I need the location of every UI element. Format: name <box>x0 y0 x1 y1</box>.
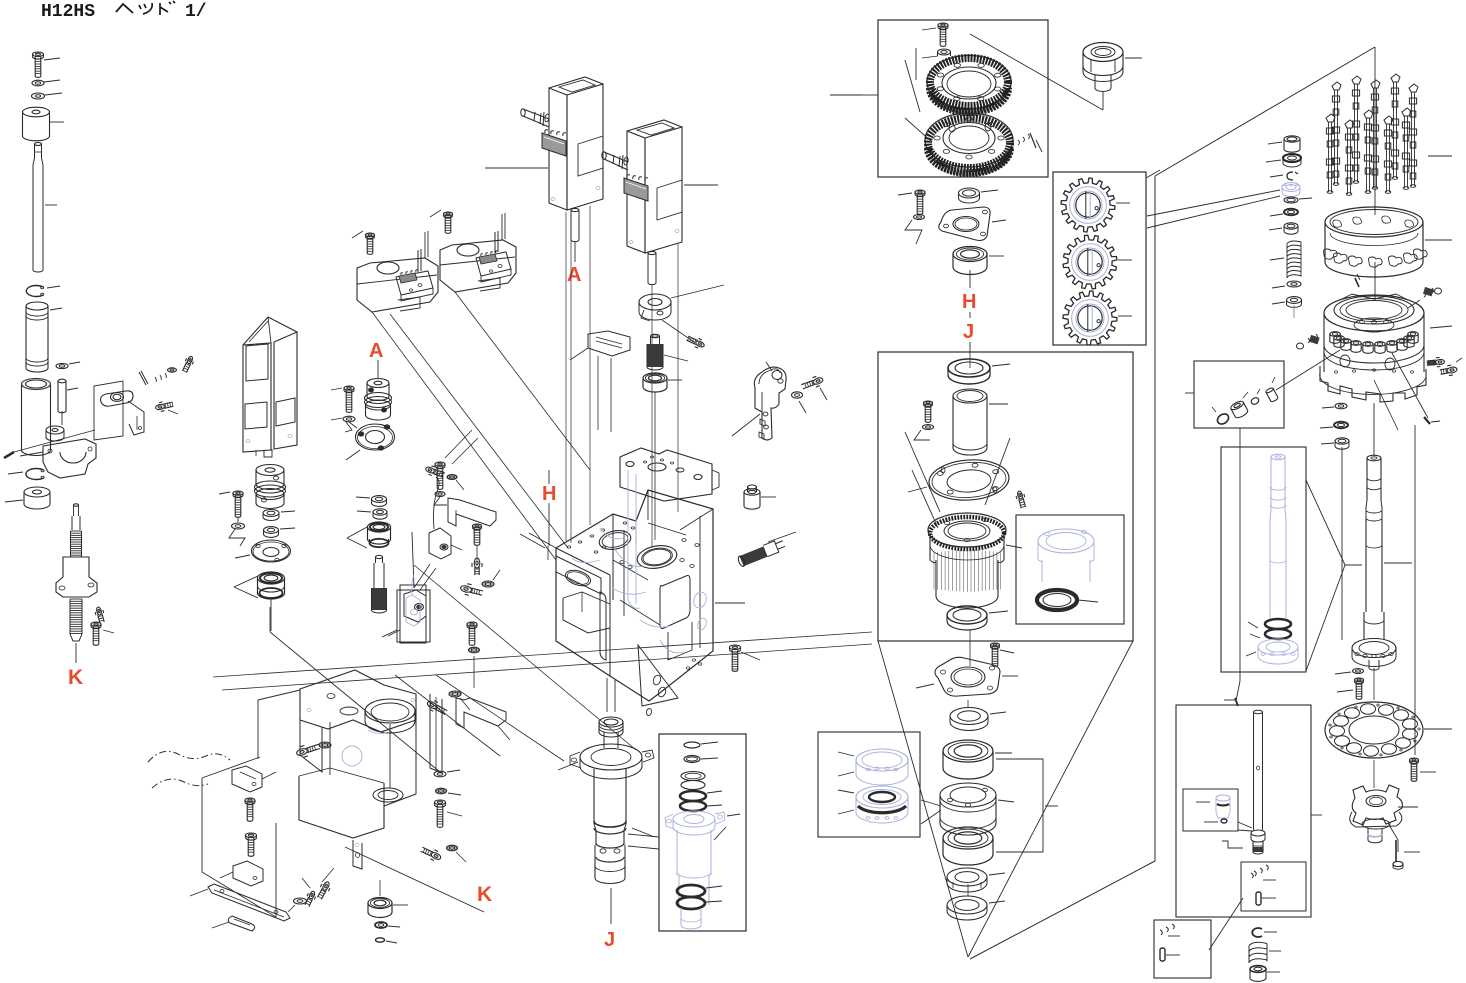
lever holes and pins <box>763 412 768 416</box>
spacer donut <box>24 487 50 497</box>
svg-text:A: A <box>567 264 581 286</box>
band cutout top 1 <box>1333 220 1342 227</box>
nozzle spindle 5 <box>1409 84 1418 92</box>
long leads down <box>372 312 556 560</box>
nozzle spindle 8 <box>1364 110 1373 118</box>
screw top <box>938 23 948 27</box>
c-clip bottom <box>1252 928 1262 937</box>
screw right side <box>1435 359 1444 365</box>
lever washer <box>792 392 803 398</box>
mini spring 3 <box>1160 924 1174 935</box>
bearing 1 <box>943 740 993 762</box>
nozzle holder 4 <box>1351 341 1361 346</box>
screw <box>366 233 375 237</box>
coupling A <box>367 379 389 388</box>
leader left of box <box>862 94 878 96</box>
nozzle holder 2 <box>1334 336 1344 341</box>
retaining ring <box>26 286 43 297</box>
block bottom triangle <box>638 645 678 706</box>
block edges <box>612 514 614 600</box>
mount strip plate <box>208 884 290 921</box>
disc hole 12 <box>1394 710 1409 720</box>
spring <box>1287 241 1301 277</box>
flanged bearing dark <box>1283 154 1301 162</box>
small oval <box>376 938 385 942</box>
band cutout 3 <box>1348 256 1362 266</box>
base mid shelf <box>299 776 384 838</box>
washer <box>435 492 445 497</box>
bent bracket <box>448 498 496 526</box>
ring plate <box>356 424 395 450</box>
adjuster knurled <box>651 334 660 338</box>
inner box 2 <box>1241 862 1306 911</box>
mini pin 3 <box>1160 948 1165 961</box>
hex nut <box>1287 297 1302 304</box>
spindle neck <box>603 732 605 748</box>
spring plunger right top <box>1424 288 1434 297</box>
coupling line down <box>269 607 271 632</box>
dark ring <box>1284 209 1298 215</box>
shock absorber knurled <box>737 538 787 567</box>
cap screw <box>460 585 472 593</box>
base right arm <box>384 720 416 806</box>
small parts box <box>1194 361 1284 428</box>
leader bracket <box>1222 841 1243 848</box>
spindle lower <box>595 830 597 845</box>
disc hole 3 <box>1382 744 1397 754</box>
cam follower lever <box>754 367 786 440</box>
spindle body <box>593 769 595 824</box>
bearing small <box>643 373 667 383</box>
hex nut A2 <box>373 509 387 515</box>
big diag line to K <box>345 847 484 912</box>
nozzle spindle 10 <box>1402 108 1411 116</box>
washer small below flange <box>1353 669 1364 674</box>
stop collar with clamp <box>639 294 671 310</box>
bearing group bracket <box>996 759 1043 852</box>
pin <box>139 372 146 385</box>
base bracket top plate <box>300 670 416 732</box>
blue ring stack A <box>856 749 908 771</box>
block lower-left plate <box>556 556 601 594</box>
leader <box>485 167 548 169</box>
spindle top rings <box>599 717 623 727</box>
spring bottom <box>1249 942 1267 962</box>
clamp screw <box>695 340 705 348</box>
hex screw <box>435 462 445 466</box>
ring <box>959 188 980 198</box>
slide block <box>588 331 630 356</box>
hub leader <box>1398 806 1418 808</box>
long leads from unit2 <box>651 285 653 547</box>
diag box3 to box2 <box>1209 898 1243 950</box>
nozzle holder 8 <box>1397 339 1407 344</box>
band cutout top 2 <box>1353 217 1362 224</box>
long thin screw <box>1395 840 1397 862</box>
small screw <box>1017 491 1023 500</box>
cap screw below <box>1355 678 1364 682</box>
ring gear box <box>878 20 1048 177</box>
cap screw <box>233 491 243 495</box>
blue flange box A <box>1258 639 1298 655</box>
plunger rod 1 <box>570 210 572 240</box>
star washer mid <box>447 845 458 851</box>
line down center turret <box>1373 403 1375 455</box>
block right face details <box>668 622 692 660</box>
c-clip small <box>1287 172 1298 180</box>
pin shaft <box>58 379 66 383</box>
disc hole 13 <box>1403 719 1418 729</box>
pointer box A <box>1306 480 1345 565</box>
dowel pin diagonal <box>4 452 14 458</box>
sheet bracket <box>456 698 506 728</box>
star washer <box>482 581 494 587</box>
bearing 2 <box>943 827 993 849</box>
spacer collar <box>23 107 50 117</box>
cap screw <box>915 190 925 194</box>
z-unit cylinder 2 <box>627 131 645 253</box>
cylinder tube <box>953 389 987 403</box>
thin shaft box B <box>1254 710 1263 714</box>
inner blue box <box>1183 789 1238 831</box>
cap nut bottom <box>1250 966 1266 973</box>
screw right <box>991 643 1000 647</box>
mini pin <box>1256 892 1261 905</box>
disc hole 9 <box>1345 708 1360 718</box>
sensor switch 1 <box>232 766 262 792</box>
lock nut 1 <box>947 868 987 886</box>
base lower bore <box>373 788 403 802</box>
base center line <box>389 724 391 788</box>
lead screw unit <box>74 504 79 506</box>
washer <box>294 898 307 904</box>
block side slot <box>600 592 606 660</box>
seal rings blue part <box>681 772 705 781</box>
band cutout 6 <box>1403 253 1417 263</box>
star washer <box>319 742 331 748</box>
shaft collar <box>46 426 64 434</box>
main long shaft <box>1367 455 1381 461</box>
washer below turret <box>1335 403 1347 409</box>
bent washer <box>343 416 355 422</box>
coupling <box>256 465 284 476</box>
perforated disc <box>1325 702 1423 758</box>
ring small <box>950 708 988 725</box>
idle gear 1 <box>1061 178 1115 232</box>
nozzle leader <box>1428 155 1452 157</box>
disc hole 6 <box>1335 736 1350 746</box>
nozzle spindle 4 <box>1391 74 1400 82</box>
mini valve with cable <box>412 532 414 588</box>
diag line turret to pin <box>1392 353 1428 418</box>
band cutout 1 <box>1323 249 1337 259</box>
panel lines lower-left 2 <box>257 700 259 759</box>
box 3 <box>1154 920 1211 978</box>
nozzle spindle 2 <box>1352 76 1361 84</box>
blue bottom inset <box>680 908 682 925</box>
disc hole 5 <box>1347 743 1362 753</box>
o-ring <box>1284 197 1298 203</box>
turret inner details <box>1340 294 1408 300</box>
nozzle holder 7 <box>1387 341 1397 346</box>
inset box outline <box>397 590 430 642</box>
hex castle plate <box>935 657 1000 696</box>
svg-text:H: H <box>962 291 976 313</box>
leader box B <box>1311 814 1322 816</box>
blue collet part <box>1216 795 1230 801</box>
pointer V drum <box>912 470 938 528</box>
o-ring small 2 <box>684 756 700 763</box>
disc leader <box>1424 728 1452 730</box>
nozzle holder 1 <box>1330 332 1340 337</box>
inner box pointer <box>1238 822 1252 828</box>
retaining ring <box>26 469 43 480</box>
guide cylinder <box>22 379 51 390</box>
blue body inset <box>676 830 678 875</box>
svg-text:K: K <box>477 883 492 906</box>
dark washer <box>375 922 387 928</box>
svg-text:1/: 1/ <box>185 2 207 22</box>
hex nut <box>263 510 279 517</box>
solenoid sub box left <box>396 271 433 295</box>
blue collet dot <box>1221 819 1227 823</box>
flange plate <box>928 457 1011 502</box>
lead screw flange block <box>56 557 97 597</box>
gear box <box>1053 172 1146 345</box>
tiny screw with coils <box>1018 134 1030 145</box>
hex nut 2 <box>264 527 279 534</box>
disc hole 10 <box>1361 704 1376 714</box>
svg-text:J: J <box>963 321 974 343</box>
box A blue shaft <box>1221 447 1306 672</box>
screw below sensor1 <box>245 798 255 802</box>
line down from cup <box>1341 447 1343 640</box>
band cutout 7 <box>1413 249 1427 259</box>
solenoid valve block left <box>357 258 438 312</box>
nozzle spindle 6 <box>1326 114 1335 122</box>
leaders spindle <box>558 762 578 770</box>
lock nut 2 <box>947 896 987 914</box>
leader right of block <box>715 602 745 604</box>
svg-text:J: J <box>604 929 615 951</box>
screw with washer top <box>467 622 477 626</box>
svg-text:H: H <box>542 483 556 505</box>
shaft tip flange <box>1251 830 1265 836</box>
screw side <box>344 386 354 390</box>
disc hole 11 <box>1379 705 1394 715</box>
black o-ring inset <box>1037 590 1077 610</box>
washer right of base <box>434 771 446 777</box>
band cutout 5 <box>1388 256 1402 266</box>
washer small <box>232 523 245 529</box>
band cutout 4 <box>1368 257 1382 267</box>
lobed hub <box>1352 785 1402 825</box>
bearing H <box>953 247 987 262</box>
nozzle spindle 7 <box>1345 120 1354 128</box>
o-ring dark in box <box>1216 412 1231 426</box>
blue spring seat <box>1282 183 1300 192</box>
bearing stack <box>258 572 285 584</box>
inset box J parts <box>659 734 746 931</box>
left inset box rings <box>818 732 920 837</box>
sensor valve with cable <box>429 528 451 559</box>
harness dash-dot curves <box>148 751 230 762</box>
side rod 2 <box>604 152 628 162</box>
center line <box>1374 47 1376 215</box>
o-ring below drum <box>947 606 987 624</box>
center line disc <box>1373 668 1375 700</box>
cap screw <box>33 52 44 57</box>
pointer from ring box <box>921 800 941 806</box>
frame diagonal bottom <box>970 861 1155 959</box>
band cutout top 3 <box>1382 216 1391 223</box>
long leads from unit1 <box>565 212 567 541</box>
center line 2 <box>1374 262 1376 300</box>
nozzle holder 5 <box>1363 342 1373 347</box>
connector 2 <box>624 178 648 201</box>
star washer right of base <box>436 788 447 794</box>
disc hole 1 <box>1403 729 1418 739</box>
disc hole 2 <box>1396 738 1411 748</box>
ring stack B with black seals <box>856 786 908 808</box>
nozzle holder 10 <box>1408 332 1418 337</box>
pointer to nut <box>970 34 1103 110</box>
diag line turret lower <box>1374 380 1398 430</box>
screw mid <box>473 524 482 528</box>
lock washer <box>32 93 45 99</box>
blue long shaft <box>1271 454 1285 460</box>
lever leaders <box>766 362 772 371</box>
blue drum inset <box>1038 529 1094 553</box>
frame vertical <box>1154 176 1156 861</box>
band leader <box>1425 239 1452 241</box>
cutout band ring <box>1325 207 1423 237</box>
ring gear upper <box>927 56 1011 109</box>
pointer pin to turret <box>1276 350 1340 390</box>
cap screw right <box>426 700 437 710</box>
line down right <box>1414 425 1416 755</box>
band cutout 2 <box>1333 253 1347 263</box>
screw hole marks top plate <box>650 456 653 458</box>
block right window <box>660 576 690 629</box>
inset box drum seal <box>1016 515 1124 624</box>
blue flange inset <box>673 811 715 827</box>
bearing A <box>368 522 391 532</box>
base bore <box>365 699 415 723</box>
center line <box>969 352 971 368</box>
center line segments <box>969 630 971 666</box>
cap screw mid <box>430 851 441 860</box>
sensor switch 2 <box>233 861 263 886</box>
label K line <box>75 643 77 663</box>
cap screw left of base <box>296 747 308 756</box>
lever arm <box>101 391 133 406</box>
nozzle holder 3 <box>1341 339 1351 344</box>
base blue refs <box>342 746 362 766</box>
screw 2 <box>246 833 257 838</box>
flat screw <box>308 890 315 899</box>
pointer V <box>347 527 367 538</box>
pointer V flange <box>905 432 940 512</box>
collet tip <box>1252 841 1254 852</box>
washer <box>923 425 934 430</box>
nozzle holder 9 <box>1404 336 1414 341</box>
box B outline <box>1176 705 1311 917</box>
cap screw right of base <box>435 800 446 805</box>
pointer lines ring gears <box>905 60 920 112</box>
base bottom tab <box>353 840 362 869</box>
cap screw lower right <box>730 645 741 650</box>
panel outline <box>94 381 123 440</box>
leader shaft <box>1384 562 1412 564</box>
hub stub blue <box>1367 828 1369 840</box>
dark ring below turret <box>1334 422 1348 428</box>
hex nut A <box>372 496 387 503</box>
nozzle holder 6 <box>1375 342 1385 347</box>
solenoid sub box right <box>476 252 511 276</box>
tiny pin top left <box>1355 278 1359 287</box>
cap screw below disc <box>1410 758 1419 762</box>
line H from block <box>547 546 549 560</box>
star washer right <box>449 691 461 697</box>
screw <box>924 401 933 405</box>
gearbox corner ticks <box>1146 170 1160 178</box>
block top bores <box>597 528 632 552</box>
top mounting plate <box>620 448 712 501</box>
z-unit cylinder 1 <box>549 88 567 210</box>
pointer lines <box>234 576 258 587</box>
main drum <box>928 513 1006 547</box>
pointer to inset <box>628 834 659 837</box>
solenoid valve block right <box>440 240 516 292</box>
disc hole 7 <box>1330 726 1345 736</box>
mini spring <box>1251 865 1268 878</box>
screw small <box>186 356 193 365</box>
turret top ring <box>1324 295 1424 331</box>
flange nut small <box>938 49 951 55</box>
pin in box <box>1265 387 1278 402</box>
ring cup <box>1284 223 1298 229</box>
hex plug right <box>1447 366 1458 373</box>
bearing below base <box>368 898 392 909</box>
idle gear 3 <box>1063 291 1117 345</box>
set plug screw <box>155 404 165 411</box>
diag leads near block <box>520 534 545 548</box>
washer <box>914 215 925 220</box>
leader right <box>684 184 718 186</box>
set screw <box>96 607 102 616</box>
valve pins left <box>417 250 419 272</box>
band cutout top 4 <box>1405 220 1414 227</box>
screw 2 <box>444 212 453 216</box>
ring gear lower <box>925 113 1013 167</box>
cup ring below turret <box>1335 438 1349 444</box>
bearing ring top <box>948 359 990 377</box>
turret castle flange <box>1320 366 1426 402</box>
screw and washer above <box>425 466 435 474</box>
pointer pair to blue washer <box>1147 190 1280 216</box>
flange disc <box>252 540 291 562</box>
turret mid band <box>1323 313 1325 372</box>
bearing drum <box>940 783 996 807</box>
hub L leader to screw <box>1388 823 1398 852</box>
turret leader right <box>1430 326 1452 328</box>
svg-text:K: K <box>68 666 83 689</box>
spindle flange <box>580 744 642 770</box>
lever screw <box>812 377 823 386</box>
leader line small box to box B <box>1239 428 1241 681</box>
drive shaft <box>35 143 42 146</box>
